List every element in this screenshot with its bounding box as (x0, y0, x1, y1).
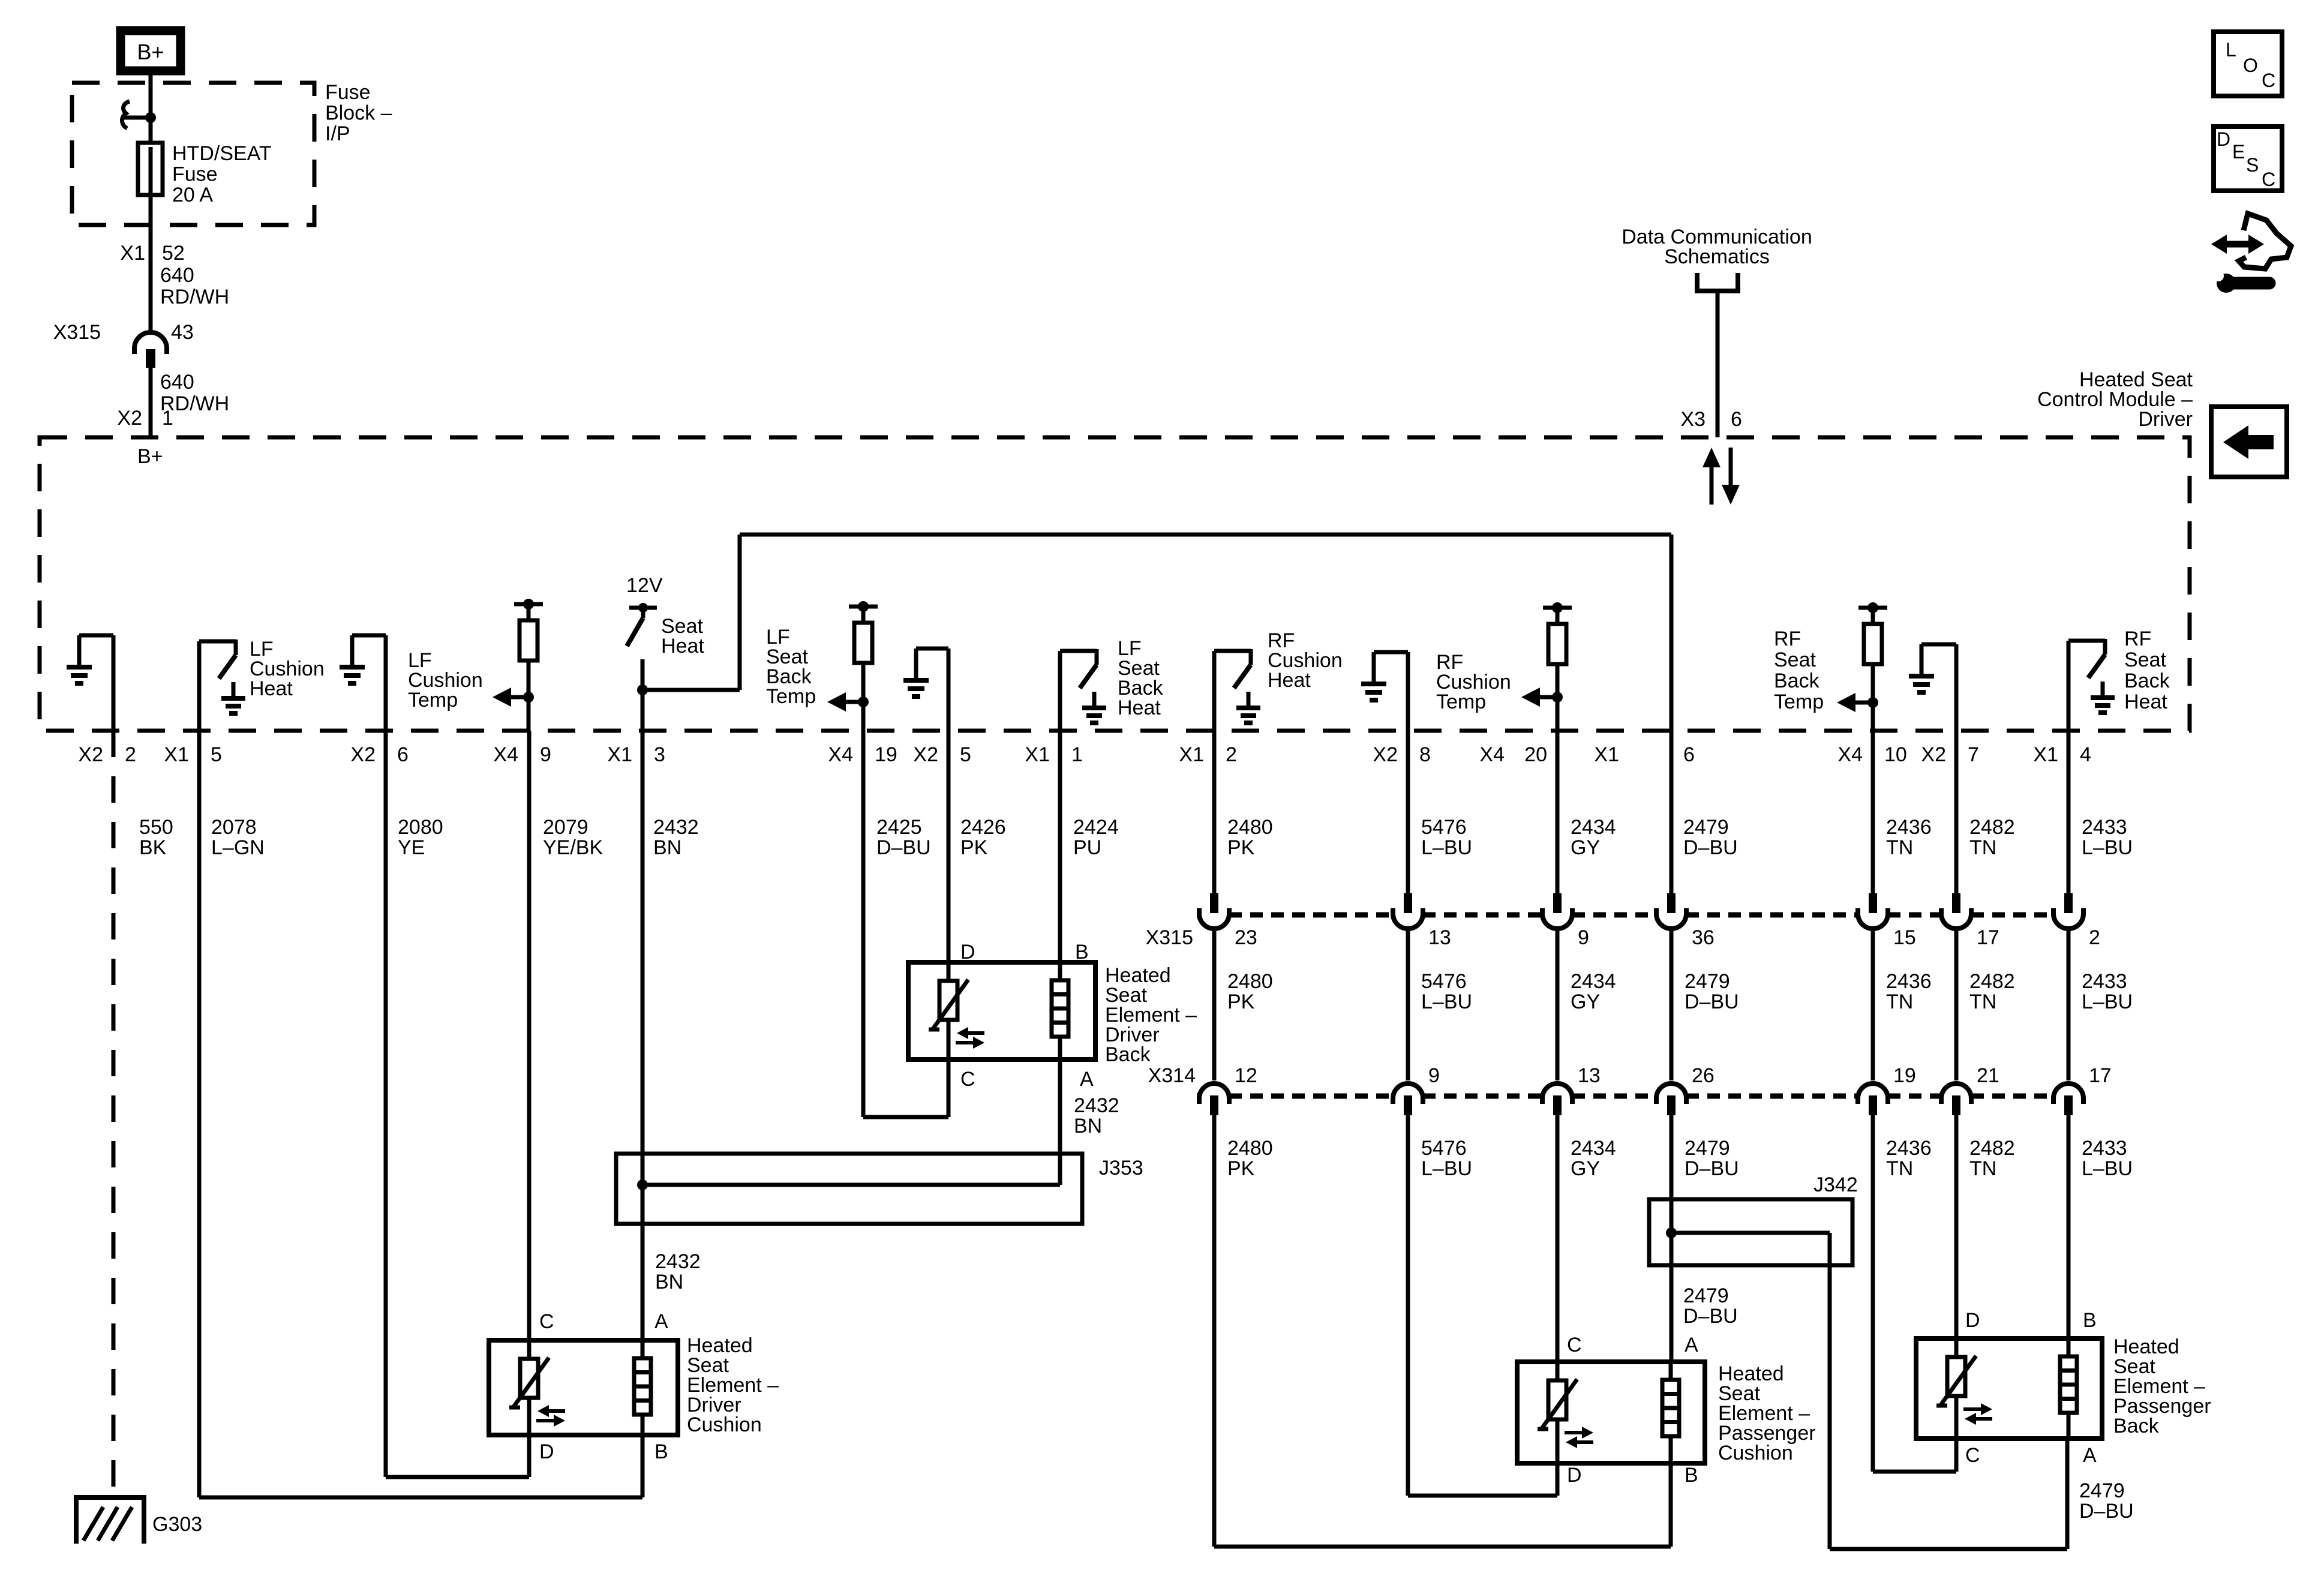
svg-text:A: A (2083, 1444, 2097, 1467)
svg-text:36: 36 (1692, 926, 1715, 949)
svg-text:TN: TN (1886, 990, 1913, 1013)
svg-text:2479: 2479 (1683, 1284, 1729, 1307)
svg-text:X1: X1 (607, 743, 632, 766)
svg-text:2479: 2479 (1685, 1137, 1730, 1160)
svg-text:PK: PK (1227, 836, 1255, 859)
svg-text:2434: 2434 (1571, 1137, 1616, 1160)
svg-text:A: A (654, 1310, 668, 1333)
svg-text:PU: PU (1073, 836, 1101, 859)
svg-text:5476: 5476 (1421, 816, 1467, 839)
svg-text:X1: X1 (2033, 743, 2058, 766)
svg-text:YE/BK: YE/BK (543, 836, 603, 859)
svg-text:2080: 2080 (398, 816, 443, 839)
svg-text:2425: 2425 (876, 816, 922, 839)
svg-text:2480: 2480 (1227, 1137, 1273, 1160)
svg-text:6: 6 (397, 743, 409, 766)
svg-text:5: 5 (960, 743, 971, 766)
svg-text:GY: GY (1571, 1157, 1600, 1180)
svg-text:640: 640 (160, 264, 194, 287)
svg-text:X4: X4 (1479, 743, 1505, 766)
svg-text:2432: 2432 (653, 816, 699, 839)
svg-text:20: 20 (1524, 743, 1547, 766)
svg-text:L–GN: L–GN (211, 836, 265, 859)
svg-text:TN: TN (1969, 836, 1996, 859)
svg-text:Back: Back (1105, 1043, 1151, 1066)
svg-text:BN: BN (1074, 1115, 1102, 1137)
svg-text:26: 26 (1692, 1064, 1715, 1087)
svg-text:X2: X2 (350, 743, 376, 766)
svg-text:Heat: Heat (1268, 669, 1311, 692)
svg-text:X2: X2 (913, 743, 938, 766)
svg-text:2436: 2436 (1886, 1137, 1932, 1160)
svg-text:X1: X1 (1179, 743, 1204, 766)
svg-text:3: 3 (654, 743, 665, 766)
svg-text:TN: TN (1886, 836, 1913, 859)
svg-text:PK: PK (1227, 1157, 1255, 1180)
svg-text:Seat: Seat (2124, 649, 2166, 671)
svg-text:PK: PK (1227, 990, 1255, 1013)
svg-text:L–BU: L–BU (1421, 836, 1472, 859)
svg-text:B: B (1075, 941, 1089, 963)
svg-text:20 A: 20 A (172, 184, 213, 206)
svg-text:12V: 12V (626, 574, 663, 597)
svg-text:HTD/SEAT: HTD/SEAT (172, 142, 272, 165)
svg-text:15: 15 (1893, 926, 1916, 949)
svg-text:YE: YE (398, 836, 425, 859)
svg-text:7: 7 (1968, 743, 1979, 766)
svg-text:2480: 2480 (1227, 970, 1273, 993)
svg-text:C: C (2262, 70, 2275, 91)
svg-text:2479: 2479 (2079, 1479, 2125, 1502)
svg-text:17: 17 (1977, 926, 1999, 949)
svg-text:13: 13 (1578, 1064, 1601, 1087)
svg-text:2434: 2434 (1571, 970, 1616, 993)
svg-text:Heat: Heat (1118, 697, 1161, 719)
svg-text:6: 6 (1731, 408, 1742, 431)
svg-text:J342: J342 (1813, 1173, 1858, 1196)
svg-text:Block –: Block – (325, 102, 392, 125)
svg-text:8: 8 (1419, 743, 1431, 766)
svg-text:RD/WH: RD/WH (160, 286, 229, 308)
svg-text:X4: X4 (828, 743, 853, 766)
svg-text:TN: TN (1969, 1157, 1996, 1180)
svg-text:2436: 2436 (1886, 816, 1932, 839)
svg-text:Schematics: Schematics (1664, 245, 1770, 268)
svg-text:RF: RF (2124, 628, 2151, 650)
svg-text:D: D (1965, 1309, 1980, 1332)
svg-text:J353: J353 (1099, 1157, 1143, 1179)
svg-text:550: 550 (139, 816, 173, 839)
svg-text:X1: X1 (120, 242, 145, 265)
svg-text:2436: 2436 (1886, 970, 1932, 993)
svg-text:Temp: Temp (1774, 691, 1824, 713)
svg-text:2: 2 (2089, 926, 2100, 949)
svg-text:Temp: Temp (766, 685, 816, 708)
svg-text:2482: 2482 (1969, 816, 2015, 839)
svg-text:TN: TN (1969, 990, 1996, 1013)
svg-text:X1: X1 (164, 743, 189, 766)
svg-text:D: D (1567, 1464, 1582, 1487)
svg-text:X1: X1 (1025, 743, 1050, 766)
svg-text:12: 12 (1235, 1064, 1257, 1087)
svg-text:GY: GY (1571, 836, 1600, 859)
svg-text:X314: X314 (1148, 1064, 1196, 1087)
svg-text:GY: GY (1571, 990, 1600, 1013)
svg-text:L–BU: L–BU (2082, 990, 2133, 1013)
svg-text:E: E (2232, 141, 2245, 163)
svg-text:C: C (1965, 1444, 1980, 1467)
svg-text:A: A (1685, 1334, 1698, 1356)
svg-text:X1: X1 (1594, 743, 1619, 766)
svg-text:D–BU: D–BU (876, 836, 931, 859)
svg-text:2433: 2433 (2082, 970, 2127, 993)
svg-text:1: 1 (1071, 743, 1083, 766)
svg-text:52: 52 (162, 242, 185, 265)
svg-text:O: O (2243, 55, 2258, 76)
svg-text:TN: TN (1886, 1157, 1913, 1180)
svg-text:2433: 2433 (2082, 816, 2127, 839)
svg-text:23: 23 (1235, 926, 1257, 949)
svg-text:RF: RF (1774, 628, 1801, 650)
svg-text:9: 9 (1428, 1064, 1440, 1087)
svg-text:D: D (960, 941, 975, 963)
svg-text:9: 9 (540, 743, 551, 766)
svg-text:2482: 2482 (1969, 970, 2015, 993)
svg-text:19: 19 (875, 743, 897, 766)
svg-text:L–BU: L–BU (1421, 990, 1472, 1013)
svg-text:C: C (960, 1068, 975, 1091)
svg-text:5476: 5476 (1421, 970, 1467, 993)
svg-text:D–BU: D–BU (1685, 1157, 1739, 1180)
svg-text:2432: 2432 (1074, 1094, 1119, 1117)
svg-text:5: 5 (211, 743, 222, 766)
svg-text:43: 43 (171, 321, 194, 344)
svg-text:D: D (539, 1440, 554, 1463)
svg-text:L–BU: L–BU (2082, 1157, 2133, 1180)
svg-text:4: 4 (2080, 743, 2091, 766)
svg-text:I/P: I/P (325, 122, 350, 145)
svg-text:X3: X3 (1680, 408, 1706, 431)
svg-text:X315: X315 (1146, 926, 1193, 949)
svg-text:1: 1 (162, 407, 173, 430)
svg-text:X315: X315 (53, 321, 101, 344)
svg-text:B: B (2083, 1309, 2097, 1332)
svg-text:Heat: Heat (2124, 691, 2167, 713)
svg-text:2479: 2479 (1683, 816, 1729, 839)
svg-text:D: D (2217, 128, 2230, 150)
svg-text:2480: 2480 (1227, 816, 1273, 839)
svg-text:X2: X2 (117, 407, 142, 430)
svg-text:2: 2 (125, 743, 136, 766)
svg-text:A: A (1080, 1068, 1094, 1091)
svg-text:2433: 2433 (2082, 1137, 2127, 1160)
svg-text:Back: Back (2124, 670, 2170, 692)
svg-text:C: C (2262, 169, 2275, 190)
svg-text:B: B (1685, 1464, 1698, 1487)
svg-text:2482: 2482 (1969, 1137, 2015, 1160)
svg-text:D–BU: D–BU (1685, 990, 1739, 1013)
svg-text:Cushion: Cushion (1718, 1442, 1793, 1464)
svg-text:2079: 2079 (543, 816, 588, 839)
svg-text:X2: X2 (1921, 743, 1946, 766)
svg-text:10: 10 (1884, 743, 1907, 766)
svg-text:Seat: Seat (1774, 649, 1816, 671)
svg-text:D–BU: D–BU (1683, 1305, 1738, 1328)
svg-text:2078: 2078 (211, 816, 257, 839)
svg-text:BK: BK (139, 836, 167, 859)
svg-text:2479: 2479 (1685, 970, 1730, 993)
svg-text:B+: B+ (137, 445, 163, 468)
svg-text:G303: G303 (152, 1513, 202, 1536)
svg-text:Temp: Temp (408, 689, 458, 712)
svg-text:BN: BN (653, 836, 681, 859)
svg-text:X2: X2 (78, 743, 103, 766)
svg-text:D–BU: D–BU (2079, 1500, 2134, 1523)
svg-text:640: 640 (160, 371, 194, 394)
svg-text:BN: BN (655, 1271, 683, 1293)
svg-text:Driver: Driver (2138, 408, 2193, 431)
svg-text:X2: X2 (1373, 743, 1398, 766)
svg-text:B: B (654, 1440, 668, 1463)
svg-text:B+: B+ (137, 40, 164, 64)
svg-text:Temp: Temp (1436, 691, 1486, 713)
svg-text:X4: X4 (493, 743, 518, 766)
svg-text:21: 21 (1977, 1064, 1999, 1087)
svg-text:C: C (539, 1310, 554, 1333)
svg-text:Fuse: Fuse (172, 163, 218, 186)
svg-text:Cushion: Cushion (687, 1413, 762, 1436)
svg-text:19: 19 (1893, 1064, 1916, 1087)
svg-text:2432: 2432 (655, 1250, 701, 1273)
svg-text:17: 17 (2089, 1064, 2112, 1087)
svg-text:Back: Back (1774, 670, 1820, 692)
svg-text:Heat: Heat (250, 677, 293, 700)
svg-text:2426: 2426 (960, 816, 1006, 839)
svg-text:6: 6 (1683, 743, 1695, 766)
svg-text:13: 13 (1428, 926, 1451, 949)
svg-text:Back: Back (2113, 1415, 2160, 1437)
svg-text:L–BU: L–BU (2082, 836, 2133, 859)
svg-text:C: C (1567, 1334, 1582, 1356)
svg-text:PK: PK (960, 836, 988, 859)
svg-text:Heat: Heat (661, 635, 704, 658)
svg-text:Fuse: Fuse (325, 81, 371, 104)
svg-text:L–BU: L–BU (1421, 1157, 1472, 1180)
svg-text:S: S (2246, 154, 2259, 176)
svg-text:9: 9 (1578, 926, 1589, 949)
svg-text:2424: 2424 (1073, 816, 1119, 839)
svg-text:D–BU: D–BU (1683, 836, 1738, 859)
svg-text:L: L (2226, 39, 2236, 61)
svg-text:2: 2 (1226, 743, 1237, 766)
svg-text:2434: 2434 (1571, 816, 1616, 839)
svg-text:5476: 5476 (1421, 1137, 1467, 1160)
svg-text:X4: X4 (1837, 743, 1863, 766)
